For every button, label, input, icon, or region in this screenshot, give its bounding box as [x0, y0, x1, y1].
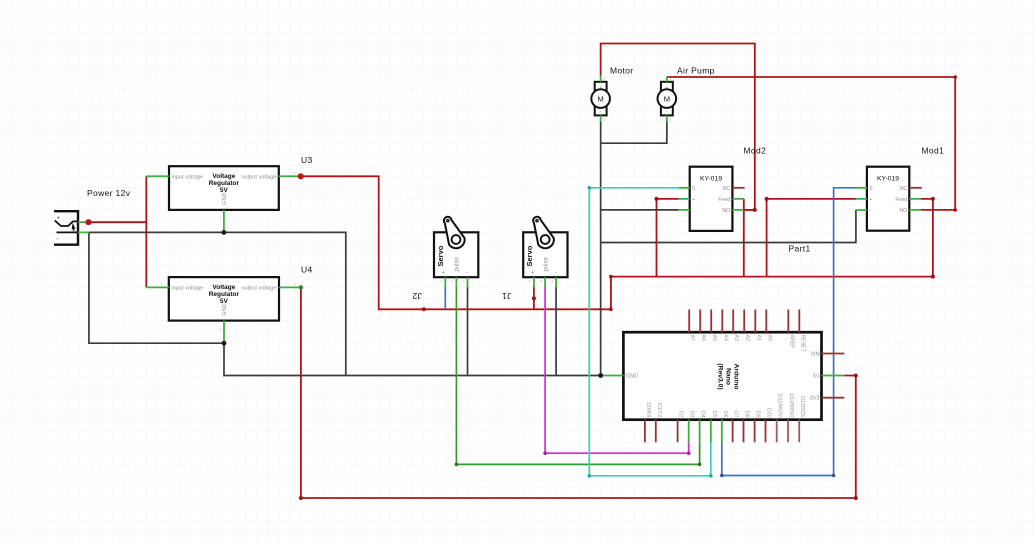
svg-text:D4: D4: [700, 411, 706, 418]
svg-text:Servo: Servo: [436, 245, 445, 266]
power jack J? body: [55, 211, 78, 245]
svg-text:Feed: Feed: [718, 197, 730, 203]
svg-text:A0: A0: [766, 335, 772, 341]
legs motor: [600, 76, 602, 121]
svg-text:output voltage: output voltage: [241, 286, 276, 292]
svg-text:-: -: [57, 237, 59, 243]
legs arduino VIN 3V3: [822, 354, 845, 398]
node J1+ bend: [532, 296, 536, 300]
svg-text:+: +: [666, 85, 669, 90]
node D4 corner: [698, 463, 702, 467]
svg-text:S: S: [869, 186, 873, 192]
leg jack +: [78, 221, 89, 223]
svg-text:D2: D2: [678, 411, 684, 418]
svg-text:Motor: Motor: [610, 66, 633, 76]
node gnd arduino: [598, 373, 603, 378]
node Mod2 NO corner: [753, 208, 757, 212]
node J2 pulse corner: [455, 463, 459, 467]
wire U3 output to 5V bus: [301, 176, 933, 309]
wire air pump - to motor -: [601, 121, 667, 143]
svg-text:NO: NO: [899, 208, 907, 214]
svg-text:Arduino: Arduino: [733, 363, 740, 389]
leg U3 input: [146, 175, 169, 177]
node 5V corner: [854, 374, 858, 378]
leg U4 GND: [223, 321, 225, 344]
svg-text:S: S: [692, 186, 696, 192]
wire jack- down to U4 gnd row: [89, 232, 601, 375]
svg-text:2: 2: [220, 327, 222, 331]
svg-text:D10: D10: [766, 408, 772, 418]
motor body: [591, 82, 610, 116]
node bus corner left: [299, 496, 303, 500]
wire Mod2 NC stub: [732, 187, 744, 189]
node gnd U4: [222, 341, 227, 346]
legs Mod2 right pins: [732, 199, 743, 210]
wire servo J2 - to ground: [467, 288, 469, 376]
servo J1 horn: [533, 217, 554, 248]
wire regulator input column vertical: [145, 176, 147, 287]
svg-text:GND: GND: [222, 192, 228, 204]
leg U3 GND: [223, 210, 225, 233]
svg-text:D9: D9: [755, 411, 761, 418]
servo J2 body: [434, 232, 478, 277]
legs servo J1 pins: [534, 277, 556, 287]
node gnd U3: [222, 230, 227, 235]
svg-text:3: 3: [462, 280, 464, 284]
svg-text:1: 1: [440, 280, 442, 284]
svg-text:U3: U3: [301, 155, 313, 165]
pin ticks U4: [161, 283, 296, 332]
wire J1 pulse magenta to D3: [545, 288, 689, 454]
svg-text:-: -: [466, 270, 468, 276]
svg-text:1: 1: [603, 77, 605, 81]
svg-text:A7: A7: [689, 335, 695, 341]
node bus bend: [422, 307, 426, 311]
svg-text:KY-019: KY-019: [877, 176, 899, 183]
node jack+: [85, 219, 91, 225]
svg-text:D8: D8: [744, 411, 750, 418]
svg-text:D5: D5: [711, 411, 717, 418]
pin ticks servo J1: [529, 280, 553, 284]
svg-text:3: 3: [294, 172, 296, 176]
node Mod2+ corner: [655, 197, 659, 201]
svg-text:NC: NC: [900, 186, 908, 192]
node bus corner right: [854, 496, 858, 500]
wire D6 blue to Mod1 S: [722, 188, 856, 476]
svg-text:Regulator: Regulator: [209, 180, 240, 187]
svg-text:2: 2: [603, 118, 605, 122]
node J1 pulse corner: [543, 451, 547, 455]
wire Part1: Mod1 - to motor gnd column: [601, 210, 856, 243]
svg-text:1: 1: [161, 283, 163, 287]
svg-text:Nano: Nano: [725, 368, 732, 385]
legs arduino D3 D4 D5 D6: [689, 420, 722, 443]
servo J1 body: [523, 232, 567, 277]
wire U4 output to arduino 5V: [301, 287, 856, 498]
wire motor+ supply from Mod2 NO: [601, 44, 755, 210]
svg-text:U4: U4: [301, 265, 313, 275]
node Mod2 S corner: [588, 186, 592, 190]
label U3 texts: [172, 173, 277, 205]
arduino nano body: [623, 332, 821, 420]
legs Mod2 left pins: [679, 188, 690, 210]
node bus left riser corners: [609, 308, 613, 312]
svg-text:input voltage: input voltage: [172, 286, 204, 292]
voltage regulator U4 body: [169, 277, 279, 321]
svg-text:A6: A6: [700, 335, 706, 341]
svg-text:A5: A5: [711, 335, 717, 341]
node Mod1 Feed bus corner: [931, 275, 935, 279]
wire J2 + blue to 5V bus: [444, 288, 446, 310]
svg-text:A3: A3: [733, 335, 739, 341]
leg U4 input: [146, 286, 169, 288]
node Mod1 Feed corner: [931, 197, 935, 201]
label arduino center: [717, 363, 740, 389]
wire Mod2 + to 5V bus: [657, 199, 679, 277]
pin ticks U3: [161, 172, 296, 221]
svg-text:-: -: [555, 270, 557, 276]
svg-text:D12/MISO: D12/MISO: [788, 393, 794, 417]
leg jack -: [78, 231, 89, 233]
wire air pump+ supply from Mod1 NO: [667, 77, 955, 210]
legs arduino unconnected bottom: [645, 420, 766, 443]
svg-text:Servo: Servo: [525, 245, 534, 266]
svg-text:A1: A1: [755, 335, 761, 341]
wire servo J1 - to ground: [555, 288, 557, 376]
svg-text:Feed: Feed: [895, 197, 907, 203]
wire Mod2 - to motor gnd column: [601, 209, 679, 211]
legs air pump: [666, 77, 668, 121]
node D6 corner: [720, 474, 724, 478]
wire J2 pulse green to D4: [456, 288, 699, 465]
label arduino pins bottom: [645, 393, 805, 418]
svg-text:NO: NO: [722, 208, 730, 214]
svg-text:M: M: [664, 94, 670, 103]
pin ticks motor + pump: [603, 77, 671, 122]
svg-text:J1: J1: [502, 291, 512, 301]
svg-text:Power 12v: Power 12v: [87, 188, 131, 198]
pin ticks servo J2: [440, 280, 464, 284]
svg-text:+: +: [599, 85, 602, 90]
leg U3 output: [279, 175, 301, 177]
svg-text:3: 3: [294, 283, 296, 287]
svg-text:Regulator: Regulator: [209, 291, 240, 298]
svg-text:J2: J2: [412, 291, 422, 301]
svg-text:GND: GND: [626, 374, 638, 380]
relay Mod1 body: [867, 167, 909, 231]
svg-text:2: 2: [220, 217, 222, 221]
svg-text:+: +: [531, 271, 534, 277]
svg-text:2: 2: [540, 280, 542, 284]
svg-text:output voltage: output voltage: [241, 175, 276, 181]
legs servo J2 pins: [445, 277, 467, 287]
svg-text:1: 1: [529, 280, 531, 284]
svg-text:KY-019: KY-019: [700, 176, 722, 183]
svg-text:Mod2: Mod2: [744, 146, 767, 156]
node blue riser corner: [832, 474, 836, 478]
svg-text:AREF: AREF: [788, 335, 794, 349]
wire Mod2 Feed to 5V bus: [743, 199, 745, 277]
node D5 corner: [709, 474, 713, 478]
svg-text:D1/TX: D1/TX: [656, 403, 662, 418]
label Mod2 texts: [692, 176, 730, 215]
svg-text:1: 1: [669, 77, 671, 81]
svg-text:A4: A4: [722, 335, 728, 341]
wire J1 + to 5V bus: [533, 288, 535, 310]
svg-text:2: 2: [669, 118, 671, 122]
svg-text:-: -: [692, 208, 694, 214]
svg-text:3V3: 3V3: [810, 396, 820, 402]
svg-text:(Rev3.0): (Rev3.0): [717, 363, 724, 389]
svg-text:+: +: [442, 271, 445, 277]
svg-text:A2: A2: [744, 335, 750, 341]
wire Mod1 NC stub: [909, 187, 922, 189]
svg-text:-: -: [869, 208, 871, 214]
node U4 output: [299, 285, 303, 289]
node air pump supply corners: [953, 75, 957, 79]
svg-text:Voltage: Voltage: [212, 284, 235, 291]
svg-text:Part1: Part1: [789, 244, 811, 254]
svg-text:5V: 5V: [813, 374, 820, 380]
LEGS (pin stubs): [78, 76, 921, 442]
svg-text:Mod1: Mod1: [922, 146, 945, 156]
legs arduino unconnected top: [645, 310, 844, 443]
wire Mod1 + to 5V bus: [767, 199, 856, 277]
svg-text:D7: D7: [733, 411, 739, 418]
svg-text:Voltage: Voltage: [212, 173, 235, 180]
node U3 output: [298, 173, 304, 179]
svg-text:pulse: pulse: [544, 256, 550, 271]
label U4 texts: [172, 284, 277, 316]
node D3 corner: [687, 451, 691, 455]
svg-text:input voltage: input voltage: [172, 175, 204, 181]
label arduino pins sides: [626, 352, 820, 402]
svg-text:+: +: [692, 197, 695, 203]
WIRES-RED: [89, 44, 956, 499]
wire Mod2 S cyan to D5: [589, 188, 711, 476]
svg-text:M: M: [598, 94, 604, 103]
mouse cursor: [72, 223, 76, 231]
wire jack- ground bus upper: [89, 232, 346, 375]
node Mod1+ corner: [765, 197, 769, 201]
svg-text:D13/SCK: D13/SCK: [799, 396, 805, 418]
svg-text:D3: D3: [689, 411, 695, 418]
leg arduino GND: [601, 375, 624, 377]
svg-text:pulse: pulse: [455, 256, 461, 271]
label servo J2 texts: [436, 245, 468, 276]
svg-text:Air Pump: Air Pump: [677, 66, 715, 76]
WIRES-BLACK: [89, 121, 856, 375]
svg-text:GND: GND: [222, 303, 228, 315]
svg-text:2: 2: [451, 280, 453, 284]
node cyan lower-left corner: [588, 474, 592, 478]
svg-text:+: +: [57, 216, 61, 222]
wire jack+ to regulators input column: [89, 221, 147, 223]
wire motor - down to arduino GND: [600, 121, 602, 375]
label servo J1 texts: [525, 245, 557, 276]
legs Mod1 left pins: [856, 188, 867, 210]
relay Mod2 body: [690, 167, 733, 231]
leg U4 output: [279, 286, 301, 288]
svg-text:D11/MOSI: D11/MOSI: [777, 394, 783, 418]
svg-text:RESET: RESET: [799, 335, 805, 353]
legs Mod1 right pins: [909, 199, 921, 210]
label arduino pins top: [689, 335, 805, 353]
svg-text:+: +: [869, 197, 872, 203]
label Mod1 texts: [869, 176, 907, 215]
air pump motor body: [658, 82, 677, 116]
svg-text:D0/RX: D0/RX: [645, 402, 651, 418]
servo J2 horn: [444, 217, 465, 248]
svg-text:D6: D6: [722, 411, 728, 418]
svg-text:VIN: VIN: [810, 352, 819, 358]
svg-text:NC: NC: [723, 186, 731, 192]
svg-text:1: 1: [161, 172, 163, 176]
leg arduino 5V: [822, 375, 845, 377]
voltage regulator U3 body: [169, 166, 279, 210]
svg-text:3: 3: [551, 280, 553, 284]
wire Mod2 NO short: [743, 209, 754, 211]
